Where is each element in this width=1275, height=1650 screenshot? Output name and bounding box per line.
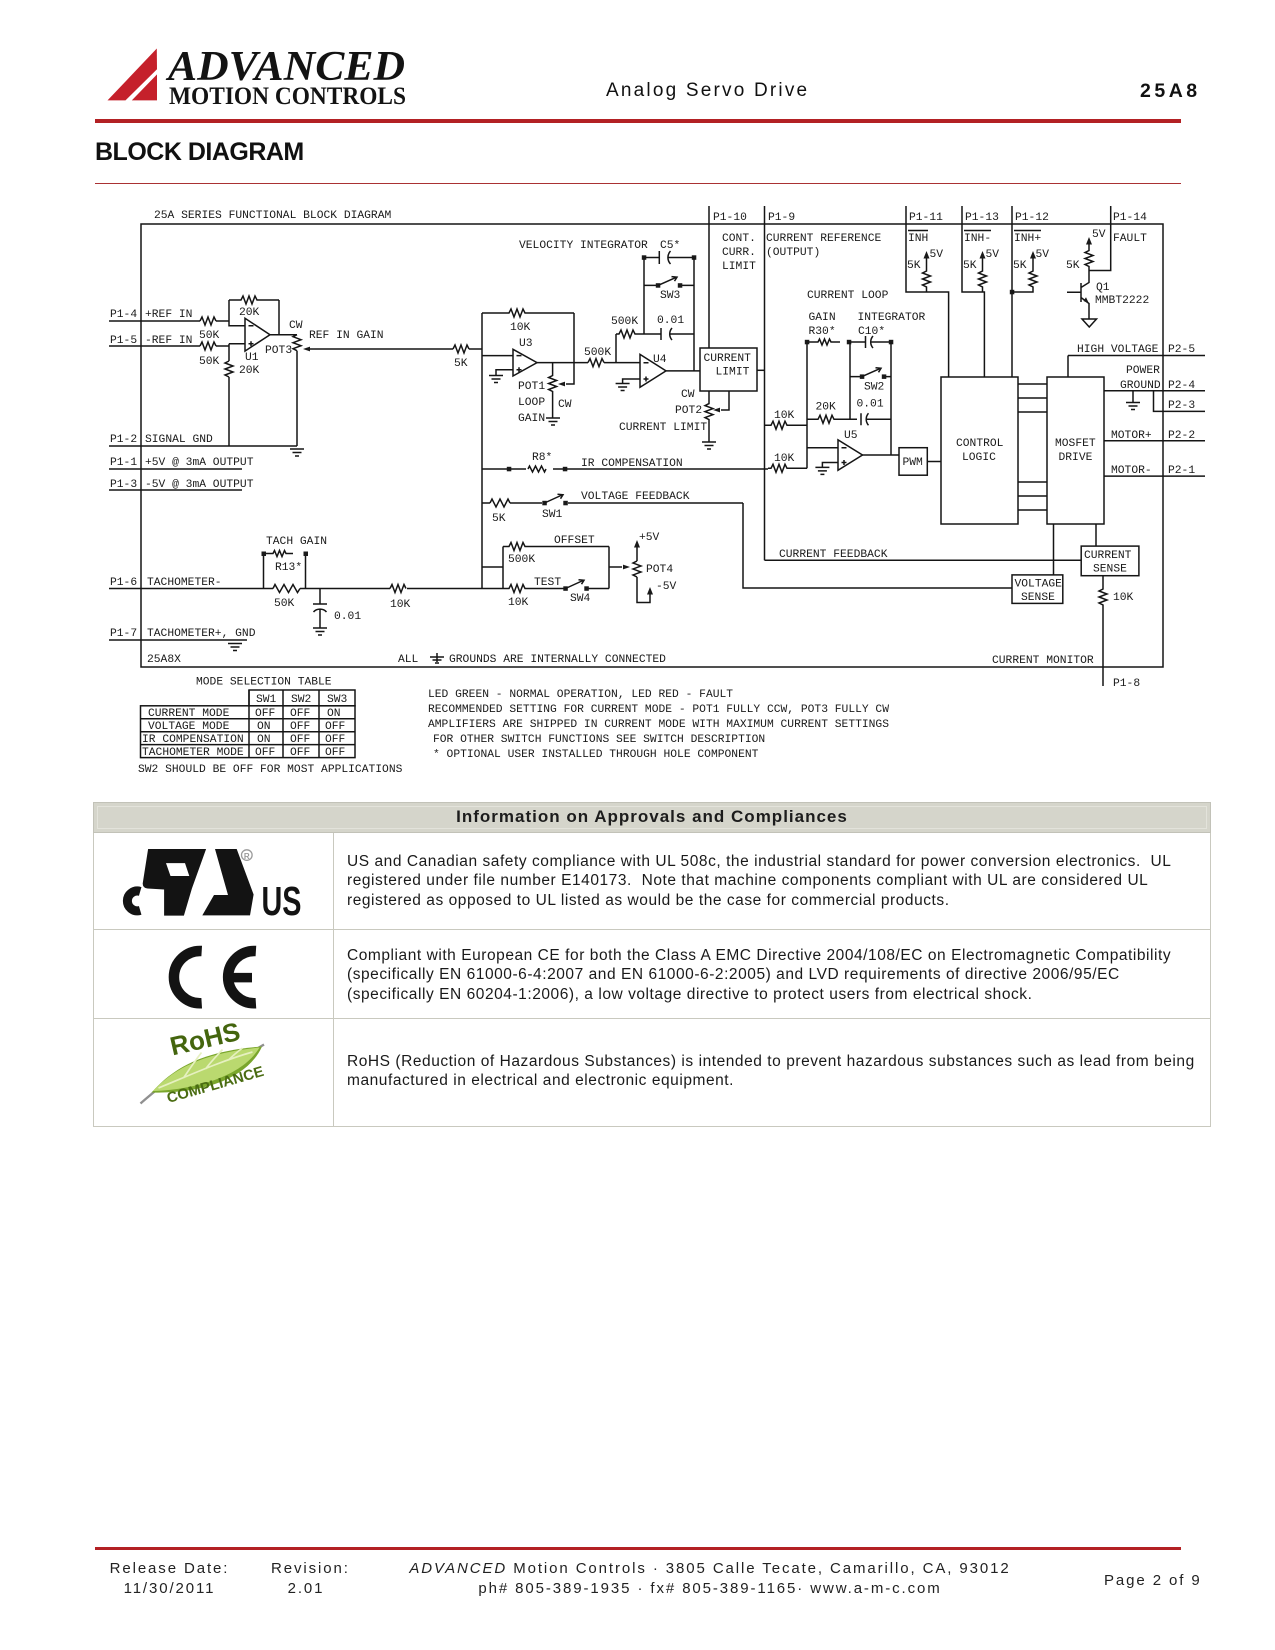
svg-text:POT3: POT3 — [265, 345, 292, 357]
svg-text:25A8X: 25A8X — [147, 654, 181, 666]
svg-text:SW2: SW2 — [291, 694, 311, 706]
logo RoHS leaf stem — [141, 1045, 265, 1104]
resistor 10K (U3 feedback) — [482, 309, 574, 334]
svg-text:POT4: POT4 — [646, 564, 673, 576]
svg-text:P2-3: P2-3 — [1168, 400, 1195, 412]
logo CE letter E — [228, 951, 256, 1003]
svg-text:AMPLIFIERS ARE SHIPPED IN CURR: AMPLIFIERS ARE SHIPPED IN CURRENT MODE W… — [428, 719, 889, 731]
svg-text:P2-5: P2-5 — [1168, 344, 1195, 356]
svg-text:TACHOMETER-: TACHOMETER- — [147, 577, 222, 589]
wire U5 output — [863, 454, 900, 456]
svg-text:OFF: OFF — [325, 747, 345, 759]
svg-text:FAULT: FAULT — [1113, 233, 1147, 245]
op-amp U5 — [838, 430, 863, 470]
resistor R30* GAIN — [805, 312, 840, 345]
svg-text:CW: CW — [558, 399, 572, 411]
table MODE SELECTION — [138, 677, 403, 777]
resistor 5K with 5V (INH) — [907, 249, 943, 292]
svg-text:C10*: C10* — [858, 326, 885, 338]
svg-text:R30*: R30* — [809, 326, 836, 338]
resistor 500K (U3 out to U4) — [584, 347, 611, 367]
svg-text:SENSE: SENSE — [1093, 564, 1127, 576]
box PWM — [899, 448, 927, 476]
node U5 minus vertical — [806, 342, 808, 468]
svg-text:5V: 5V — [1036, 249, 1050, 261]
box MOSFET DRIVE — [1047, 377, 1104, 524]
svg-text:INH+: INH+ — [1014, 233, 1041, 245]
svg-text:LOOP: LOOP — [518, 397, 545, 409]
text ALL GROUNDS ARE INTERNALLY CONNECTED — [398, 653, 666, 666]
op-amp U1 — [245, 318, 270, 364]
svg-text:INH-: INH- — [964, 233, 991, 245]
svg-text:SW1: SW1 — [256, 694, 277, 706]
node P1-12 INH+ column — [1010, 206, 1049, 377]
wire U3 minus input — [482, 355, 513, 357]
logo CE letter C — [174, 951, 202, 1003]
node P2-2 MOTOR+ — [1104, 430, 1205, 442]
svg-text:5K: 5K — [492, 513, 506, 525]
svg-text:10K: 10K — [508, 597, 529, 609]
box CURRENT LIMIT — [700, 348, 757, 391]
wire R30/C10 middle vertical — [849, 342, 851, 419]
svg-text:LIMIT: LIMIT — [716, 367, 750, 379]
svg-text:US: US — [262, 878, 302, 924]
svg-text:LOGIC: LOGIC — [962, 452, 996, 464]
svg-text:SW2: SW2 — [864, 382, 884, 394]
svg-text:OFFSET: OFFSET — [554, 535, 595, 547]
resistor 10K (tach) — [390, 585, 411, 612]
svg-text:CURRENT LOOP: CURRENT LOOP — [807, 290, 889, 302]
wire U5 feedback right vertical — [890, 342, 892, 455]
node P2-4 POWER GROUND — [1104, 365, 1205, 392]
svg-text:PWM: PWM — [903, 457, 924, 469]
svg-text:CW: CW — [681, 389, 695, 401]
svg-text:P1-4: P1-4 — [110, 309, 137, 321]
svg-text:OFF: OFF — [255, 747, 275, 759]
svg-text:P1-1: P1-1 — [110, 457, 137, 469]
resistor 50K (P1-4 input) — [199, 317, 220, 342]
svg-text:MODE SELECTION TABLE: MODE SELECTION TABLE — [196, 677, 332, 689]
svg-text:RECOMMENDED SETTING FOR CURREN: RECOMMENDED SETTING FOR CURRENT MODE - P… — [428, 704, 889, 716]
node P1-7 TACHOMETER+, GND — [109, 628, 256, 640]
svg-text:P1-3: P1-3 — [110, 479, 137, 491]
svg-text:OFF: OFF — [325, 734, 345, 746]
svg-text:500K: 500K — [508, 554, 535, 566]
svg-text:10K: 10K — [774, 410, 795, 422]
svg-text:CW: CW — [289, 320, 303, 332]
svg-text:SW4: SW4 — [570, 593, 591, 605]
svg-text:P2-1: P2-1 — [1168, 465, 1195, 477]
svg-text:-5V @ 3mA OUTPUT: -5V @ 3mA OUTPUT — [145, 479, 254, 491]
svg-text:FOR OTHER SWITCH FUNCTIONS SEE: FOR OTHER SWITCH FUNCTIONS SEE SWITCH DE… — [433, 734, 765, 746]
box CONTROL LOGIC — [941, 377, 1018, 524]
switch SW2 — [850, 368, 891, 394]
svg-text:P1-2: P1-2 — [110, 434, 137, 446]
svg-text:P1-8: P1-8 — [1113, 678, 1140, 690]
svg-text:20K: 20K — [239, 365, 260, 377]
svg-text:ON: ON — [257, 734, 271, 746]
svg-text:P1-10: P1-10 — [713, 212, 747, 224]
wire U1 plus input vertical — [229, 344, 245, 361]
ground (U3 plus) — [489, 370, 513, 383]
svg-text:IR COMPENSATION: IR COMPENSATION — [581, 458, 683, 470]
svg-text:TACHOMETER MODE: TACHOMETER MODE — [142, 747, 244, 759]
svg-text:DRIVE: DRIVE — [1059, 452, 1093, 464]
svg-text:POT2: POT2 — [675, 405, 702, 417]
node P1-2 SIGNAL GND — [109, 434, 297, 446]
resistor 50K (P1-5 input) — [199, 342, 220, 368]
svg-text:5K: 5K — [454, 358, 468, 370]
schematic outer border — [141, 224, 1163, 667]
svg-text:SW3: SW3 — [327, 694, 348, 706]
svg-text:-REF IN: -REF IN — [145, 335, 192, 347]
svg-text:GROUNDS ARE INTERNALLY CONNECT: GROUNDS ARE INTERNALLY CONNECTED — [449, 654, 666, 666]
node P1-8 CURRENT MONITOR — [992, 655, 1140, 690]
svg-text:CURRENT: CURRENT — [1084, 550, 1132, 562]
node P1-1 +5V output — [109, 457, 254, 469]
svg-text:POWER: POWER — [1126, 365, 1160, 377]
svg-text:25A SERIES FUNCTIONAL BLOCK DI: 25A SERIES FUNCTIONAL BLOCK DIAGRAM — [154, 210, 391, 222]
node P1-9 column CURRENT REFERENCE — [765, 206, 882, 560]
ground (U4 plus) — [616, 379, 640, 391]
svg-text:VELOCITY INTEGRATOR: VELOCITY INTEGRATOR — [519, 240, 648, 252]
resistor 5K with 5V (INH+) — [1012, 249, 1049, 292]
svg-text:ON: ON — [257, 721, 271, 733]
svg-text:MOSFET: MOSFET — [1055, 438, 1096, 450]
svg-text:5K: 5K — [1066, 260, 1080, 272]
svg-text:TEST: TEST — [534, 577, 561, 589]
resistor 5K (ref in gain) — [453, 345, 469, 370]
svg-text:P1-13: P1-13 — [965, 212, 999, 224]
svg-text:P1-7: P1-7 — [110, 628, 137, 640]
wire C5/SW3 right vertical — [693, 258, 695, 372]
node summing junction vertical (U3 input) — [481, 313, 483, 589]
svg-text:IR COMPENSATION: IR COMPENSATION — [142, 734, 244, 746]
ground (P1-7) — [228, 644, 242, 651]
box CURRENT SENSE — [1081, 524, 1139, 576]
wire VOLTAGE FEEDBACK with 5K and SW1 — [482, 491, 743, 525]
svg-text:OFF: OFF — [325, 721, 345, 733]
wire REF IN GAIN — [309, 330, 482, 349]
svg-text:VOLTAGE FEEDBACK: VOLTAGE FEEDBACK — [581, 491, 690, 503]
svg-text:10K: 10K — [390, 599, 411, 611]
svg-text:R: R — [244, 852, 250, 861]
pot POT1 LOOP GAIN — [518, 313, 574, 425]
capacitor 0.01 (U4 feedback) — [657, 315, 694, 340]
svg-text:CURRENT FEEDBACK: CURRENT FEEDBACK — [779, 549, 888, 561]
svg-text:ALL: ALL — [398, 654, 419, 666]
transistor Q1 MMBT2222 — [1067, 271, 1149, 328]
switch SW3 — [644, 277, 694, 302]
wire U5 minus input — [807, 447, 838, 449]
svg-text:* OPTIONAL USER INSTALLED THRO: * OPTIONAL USER INSTALLED THROUGH HOLE C… — [433, 749, 759, 761]
resistor 500K (U4 feedback) — [611, 316, 657, 338]
svg-text:TACH GAIN: TACH GAIN — [266, 536, 327, 548]
svg-text:10K: 10K — [774, 453, 795, 465]
svg-text:HIGH VOLTAGE: HIGH VOLTAGE — [1077, 344, 1159, 356]
svg-text:ON: ON — [327, 708, 341, 720]
box VOLTAGE SENSE — [1012, 524, 1063, 604]
node P2-5 HIGH VOLTAGE — [1068, 344, 1205, 377]
svg-text:POT1: POT1 — [518, 381, 545, 393]
svg-text:U1: U1 — [245, 352, 259, 364]
logo UL c — [127, 891, 140, 911]
pot POT3 REF IN GAIN — [265, 320, 315, 446]
svg-text:50K: 50K — [274, 598, 295, 610]
resistor 20K (to signal gnd) — [225, 361, 260, 446]
svg-text:20K: 20K — [239, 307, 260, 319]
svg-text:20K: 20K — [816, 402, 837, 414]
wire bus lines between boxes — [1018, 384, 1047, 510]
svg-text:5V: 5V — [1092, 229, 1106, 241]
svg-text:5V: 5V — [930, 249, 944, 261]
svg-text:VOLTAGE: VOLTAGE — [1015, 579, 1063, 591]
svg-text:10K: 10K — [1113, 592, 1134, 604]
svg-text:50K: 50K — [199, 356, 220, 368]
wire U1 output — [270, 334, 297, 336]
resistor 20K (U1 feedback) — [229, 296, 279, 319]
svg-text:-5V: -5V — [656, 581, 677, 593]
svg-text:R13*: R13* — [275, 562, 302, 574]
svg-text:5V: 5V — [986, 249, 1000, 261]
capacitor C10* INTEGRATOR — [847, 312, 926, 348]
node P1-4 +REF IN — [109, 309, 229, 321]
svg-text:U3: U3 — [519, 338, 533, 350]
capacitor C5 velocity integrator — [519, 240, 696, 264]
op-amp U3 — [513, 338, 537, 376]
svg-text:CONTROL: CONTROL — [956, 438, 1004, 450]
op-amp U4 — [640, 354, 667, 387]
svg-text:OFF: OFF — [255, 708, 275, 720]
node P1-13 INH- column — [962, 206, 999, 377]
node P1-6 TACHOMETER- — [109, 577, 503, 589]
capacitor 0.01 (tach) — [313, 589, 361, 636]
svg-text:LIMIT: LIMIT — [722, 261, 756, 273]
wire IR COMPENSATION with resistor R8* — [482, 452, 768, 472]
svg-text:OFF: OFF — [290, 747, 310, 759]
svg-text:5K: 5K — [907, 260, 921, 272]
svg-text:MMBT2222: MMBT2222 — [1095, 295, 1149, 307]
svg-text:CURR.: CURR. — [722, 247, 756, 259]
resistor 10K (current ref to U5) — [765, 410, 808, 429]
resistor 20K (U5 feedback) — [807, 402, 857, 424]
svg-text:P1-9: P1-9 — [768, 212, 795, 224]
resistor 50K (tach) — [273, 585, 300, 611]
svg-text:OFF: OFF — [290, 721, 310, 733]
svg-text:CONT.: CONT. — [722, 233, 756, 245]
logo red triangle main piece — [108, 49, 158, 101]
svg-text:Q1: Q1 — [1096, 282, 1110, 294]
logo UL (R) — [242, 850, 253, 861]
node P1-11 INH column — [906, 206, 949, 377]
svg-text:MOTOR-: MOTOR- — [1111, 465, 1152, 477]
svg-text:LED GREEN - NORMAL OPERATION,: LED GREEN - NORMAL OPERATION, LED RED - … — [428, 689, 733, 701]
node U4 input vertical — [615, 334, 617, 363]
logo RoHS leaf dark underside — [152, 1047, 263, 1093]
svg-text:REF IN GAIN: REF IN GAIN — [309, 330, 384, 342]
svg-text:GAIN: GAIN — [518, 413, 545, 425]
wire U4 output — [666, 370, 700, 372]
svg-text:(OUTPUT): (OUTPUT) — [766, 247, 820, 259]
svg-text:0.01: 0.01 — [857, 399, 884, 411]
svg-text:+5V @ 3mA OUTPUT: +5V @ 3mA OUTPUT — [145, 457, 254, 469]
node P1-3 -5V output — [109, 479, 254, 491]
svg-text:C5*: C5* — [660, 240, 680, 252]
svg-text:P1-11: P1-11 — [909, 212, 943, 224]
logo RoHS leaf body — [153, 1048, 260, 1092]
svg-text:U5: U5 — [844, 430, 858, 442]
pot POT2 CURRENT LIMIT — [619, 389, 729, 449]
svg-text:500K: 500K — [584, 347, 611, 359]
svg-text:INTEGRATOR: INTEGRATOR — [858, 312, 926, 324]
logo RoHS leaf veins — [159, 1048, 253, 1088]
svg-text:SENSE: SENSE — [1021, 592, 1055, 604]
svg-text:OFF: OFF — [290, 708, 310, 720]
svg-text:SW2 SHOULD BE OFF FOR MOST APP: SW2 SHOULD BE OFF FOR MOST APPLICATIONS — [138, 764, 403, 776]
logo red triangle small piece — [132, 74, 157, 100]
capacitor 0.01 (U5 feedback) — [857, 399, 892, 426]
wire voltage sense line — [743, 503, 1012, 588]
wire U3 output — [537, 362, 640, 364]
svg-text:5K: 5K — [1013, 260, 1027, 272]
svg-text:CURRENT REFERENCE: CURRENT REFERENCE — [766, 233, 881, 245]
ground (signal gnd) — [290, 449, 304, 456]
svg-text:GAIN: GAIN — [809, 312, 836, 324]
resistor 10K (IR comp to U5) — [768, 453, 807, 472]
svg-text:5K: 5K — [963, 260, 977, 272]
svg-text:SIGNAL GND: SIGNAL GND — [145, 434, 213, 446]
node P1-14 FAULT column — [1089, 206, 1147, 271]
ground (U5 plus) — [815, 463, 838, 475]
resistor 10K (current monitor) — [1099, 576, 1134, 686]
pot POT4 offset — [633, 532, 677, 603]
svg-text:OFF: OFF — [290, 734, 310, 746]
wire PWM to control logic — [927, 461, 941, 463]
svg-text:0.01: 0.01 — [657, 315, 684, 327]
svg-text:+REF IN: +REF IN — [145, 309, 192, 321]
wire C5/SW3 left vertical — [643, 258, 645, 335]
wire CURRENT FEEDBACK — [765, 549, 1082, 561]
text schematic notes — [428, 689, 889, 761]
svg-text:P1-5: P1-5 — [110, 335, 137, 347]
logo UL recognized mark — [143, 849, 206, 916]
svg-text:INH: INH — [908, 233, 928, 245]
svg-text:10K: 10K — [510, 322, 531, 334]
svg-text:SW1: SW1 — [542, 509, 563, 521]
resistor 5K with 5V (INH-) — [963, 249, 999, 292]
svg-text:CURRENT: CURRENT — [704, 353, 752, 365]
svg-text:SW3: SW3 — [660, 290, 681, 302]
node P1-5 -REF IN — [109, 335, 229, 347]
resistor R13 TACH GAIN — [262, 536, 328, 589]
node P2-1 MOTOR- — [1104, 465, 1205, 477]
svg-text:P1-12: P1-12 — [1015, 212, 1049, 224]
svg-text:CURRENT LIMIT: CURRENT LIMIT — [619, 422, 707, 434]
svg-text:+5V: +5V — [639, 532, 660, 544]
node P1-10 column — [709, 206, 756, 348]
svg-text:P1-14: P1-14 — [1113, 212, 1147, 224]
svg-text:VOLTAGE MODE: VOLTAGE MODE — [148, 721, 230, 733]
svg-text:0.01: 0.01 — [334, 611, 361, 623]
svg-text:R8*: R8* — [532, 452, 552, 464]
wire U1 feedback right vertical — [278, 300, 280, 335]
svg-text:CURRENT MONITOR: CURRENT MONITOR — [992, 655, 1094, 667]
network OFFSET / TEST — [482, 535, 630, 609]
ground (power ground) — [1126, 391, 1140, 410]
svg-text:500K: 500K — [611, 316, 638, 328]
node P2-3 — [1154, 391, 1206, 412]
resistor 5K with 5V (fault) — [1066, 229, 1106, 272]
wire U1 feedback left vertical — [229, 300, 245, 326]
wire current limit box output — [757, 369, 765, 371]
svg-text:P1-6: P1-6 — [110, 577, 137, 589]
svg-text:TACHOMETER+, GND: TACHOMETER+, GND — [147, 628, 256, 640]
svg-text:CURRENT MODE: CURRENT MODE — [148, 708, 230, 720]
